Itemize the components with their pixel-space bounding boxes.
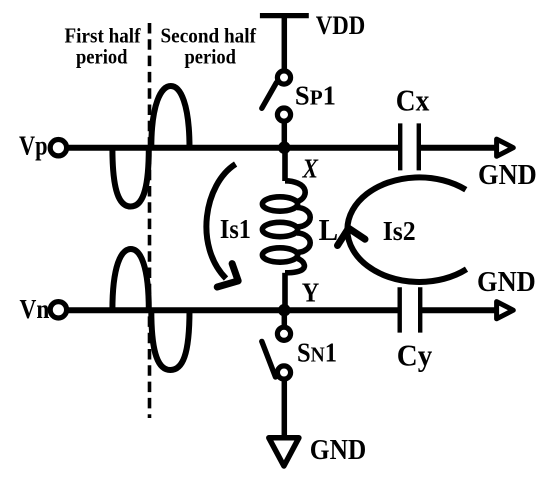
wire: Cy to GND arrow (bottom) [420, 307, 497, 313]
GND arrow (mid right) [497, 302, 514, 319]
svg-text:Is2: Is2 [383, 216, 416, 246]
Vp waveform (sine) [112, 86, 189, 207]
wire: top rail Vp to Cx [67, 145, 400, 151]
svg-text:GND: GND [478, 159, 537, 191]
dashed divider line [148, 23, 152, 418]
wire: Cx to GND arrow (top) [419, 145, 498, 151]
svg-text:Vn: Vn [20, 294, 50, 324]
svg-text:Is1: Is1 [220, 214, 251, 244]
svg-text:X: X [302, 153, 319, 184]
GND arrow (top right) [497, 139, 514, 156]
svg-text:GND: GND [477, 266, 536, 298]
svg-text:VDD: VDD [316, 10, 366, 40]
wire: VDD stem to switch SP1 [282, 16, 288, 69]
VDD supply bar [260, 13, 309, 18]
svg-text:Vp: Vp [19, 130, 48, 160]
svg-text:period: period [185, 44, 237, 68]
svg-text:SN1: SN1 [297, 337, 337, 367]
node X junction dot [278, 141, 291, 154]
wire: SP1 to node X [282, 123, 288, 149]
switch SN1 [262, 327, 291, 379]
svg-text:period: period [76, 44, 128, 68]
current arrow Is1 [206, 164, 238, 287]
svg-text:Cx: Cx [396, 84, 430, 118]
ground symbol [269, 438, 299, 466]
svg-text:L: L [319, 213, 339, 247]
svg-text:SP1: SP1 [295, 81, 336, 111]
svg-text:Cy: Cy [397, 339, 433, 373]
wire: node Y to switch SN1 [282, 310, 288, 326]
svg-text:GND: GND [310, 434, 367, 466]
inductor L (coil) [262, 148, 310, 310]
wire: SN1 to ground symbol [282, 380, 288, 438]
current loop Is2 [338, 177, 467, 282]
terminal Vp [50, 140, 66, 156]
label: First half period [65, 23, 142, 68]
Vn waveform (sine) [112, 249, 189, 370]
wire: bottom rail Vn to Cy [67, 307, 400, 313]
capacitor Cx [400, 123, 419, 170]
terminal Vn [50, 302, 66, 318]
switch SP1 [262, 71, 291, 121]
svg-text:Y: Y [302, 277, 320, 308]
capacitor Cy [400, 287, 421, 332]
node Y junction dot [278, 304, 291, 317]
label: Second half period [161, 23, 257, 68]
